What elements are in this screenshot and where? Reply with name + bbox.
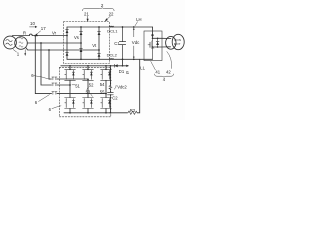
svg-text:DCL1: DCL1 <box>107 28 118 33</box>
svg-text:D1: D1 <box>119 69 125 74</box>
wire S drop vertical <box>41 43 52 85</box>
clamp bottom bus wire <box>64 112 128 114</box>
node Vdc bottom tap <box>133 58 135 60</box>
node emitter-output <box>152 46 154 48</box>
load winding ellipse <box>166 36 176 49</box>
wire rail to bus link <box>122 59 124 66</box>
wire bottom DC rail <box>67 58 153 60</box>
label 52 with leader <box>87 82 94 89</box>
limiter zigzag <box>109 85 112 89</box>
wire collector drop into box <box>152 27 154 38</box>
wire hop on R line <box>29 34 32 35</box>
node bus D1 link <box>122 65 124 67</box>
diode upper leg3 <box>98 32 101 35</box>
node S drop <box>40 42 42 44</box>
wire R drop vertical <box>35 36 51 94</box>
inductor DCL1 coil <box>109 25 114 28</box>
node collector <box>152 38 154 40</box>
current arrow I1 <box>126 65 130 76</box>
wire T drop vertical <box>49 50 52 79</box>
label 17 with arrow to wire <box>34 26 46 36</box>
svg-text:41: 41 <box>155 69 160 74</box>
diode lower leg2 <box>80 49 83 52</box>
label 53 with leader <box>86 89 93 96</box>
clamp branch wire upper <box>109 66 111 86</box>
label 6 lower with leader <box>49 106 61 112</box>
wire column1 mid <box>69 80 71 97</box>
node C1 top <box>122 26 124 28</box>
diode lower leg3 <box>98 53 101 56</box>
cell 52 top-middle <box>83 66 94 81</box>
cell 54 top-right <box>101 66 112 81</box>
svg-text:54: 54 <box>100 82 105 87</box>
node bottom clamp branch <box>110 112 112 114</box>
svg-text:Vs: Vs <box>74 35 79 40</box>
bridge leg 1 vertical <box>66 27 68 59</box>
rectifier module box 2 dashed <box>64 22 110 64</box>
node bus col2 <box>87 65 89 67</box>
svg-text:Vr: Vr <box>52 30 57 35</box>
svg-text:DCL2: DCL2 <box>107 52 118 57</box>
svg-text:I1: I1 <box>126 70 130 75</box>
wire column3 mid <box>105 80 107 97</box>
svg-text:Vdc: Vdc <box>132 40 140 45</box>
svg-text:10: 10 <box>30 21 35 26</box>
svg-text:6: 6 <box>35 100 38 105</box>
node S tap col1 <box>69 84 71 86</box>
node T-leg3 <box>98 49 100 51</box>
node R-leg1 <box>66 35 68 37</box>
transistor 41 IGBT <box>148 34 154 59</box>
svg-text:LL: LL <box>140 66 145 71</box>
svg-text:22: 22 <box>109 11 114 16</box>
svg-text:52: 52 <box>89 82 94 87</box>
filter element 6 on R wire <box>52 92 57 95</box>
node diode top <box>157 38 159 40</box>
label 41 with leader <box>151 61 161 74</box>
svg-text:42: 42 <box>166 69 171 74</box>
wire phase R horizontal <box>12 35 67 37</box>
diode upper leg2 <box>80 32 83 35</box>
label 51 with leader <box>72 84 81 89</box>
svg-text:R2: R2 <box>130 108 136 113</box>
switching unit box 4 <box>144 31 162 61</box>
diode 42 freewheel <box>156 38 159 47</box>
bridge leg 2 vertical <box>80 27 82 59</box>
node R tap col3 <box>105 93 107 95</box>
wire top DC rail <box>67 26 153 28</box>
wire output upper to load <box>153 37 171 39</box>
brace over 21 and 22 <box>82 7 114 10</box>
wire column2 mid <box>87 80 89 97</box>
label 22 with arrow <box>105 11 114 21</box>
svg-text:55: 55 <box>100 89 105 94</box>
bridge leg 3 vertical <box>98 27 100 59</box>
svg-text:21: 21 <box>84 11 89 16</box>
node bus col3 <box>105 65 107 67</box>
neutral stub arrow below source <box>24 50 26 56</box>
svg-text:LH: LH <box>136 17 141 22</box>
label Vdc2 with arc <box>114 84 127 89</box>
label 6 middle with leader <box>35 95 50 105</box>
node T drop <box>48 49 50 51</box>
node bus col1 <box>69 65 71 67</box>
filter element 6 on T wire <box>52 77 57 80</box>
svg-text:Vt: Vt <box>92 43 97 48</box>
capacitor C2 <box>108 89 114 113</box>
wire output lower to load <box>153 46 171 48</box>
inverter module box 5 dashed <box>59 67 111 117</box>
label LH with leader <box>135 17 142 26</box>
wire T into box <box>57 78 88 80</box>
wire LL vertical <box>137 59 140 113</box>
node leg2 top <box>80 26 82 28</box>
cell bottom-left switch <box>65 98 76 113</box>
label 6 upper with leader <box>31 73 50 79</box>
svg-text:1: 1 <box>17 52 20 57</box>
diode lower leg1 <box>66 52 69 55</box>
node S-leg2 <box>80 42 82 44</box>
label 1 with pointer <box>13 50 20 57</box>
svg-text:R: R <box>23 31 26 36</box>
node leg2 bottom <box>80 58 82 60</box>
svg-text:MOT: MOT <box>174 42 181 46</box>
capacitor C1 <box>119 27 125 59</box>
diode upper leg1 <box>66 30 69 33</box>
svg-text:C2: C2 <box>112 95 118 100</box>
resistor R2 <box>128 111 137 114</box>
wire phase T horizontal <box>26 48 99 50</box>
label 10 with current arrow <box>30 21 38 28</box>
cell 53 bottom-middle <box>83 98 94 113</box>
label 21 with arrow <box>84 11 89 21</box>
node leg3 bottom <box>98 58 100 60</box>
svg-text:51: 51 <box>75 84 80 89</box>
node bottom col3 <box>105 112 107 114</box>
diode D1 on bus <box>114 64 117 67</box>
svg-text:6: 6 <box>49 107 52 112</box>
filter element 6 on S wire <box>52 83 57 86</box>
node C1 bottom <box>122 58 124 60</box>
svg-text:4: 4 <box>163 77 166 82</box>
cell 51 top-left <box>65 66 76 81</box>
node Vdc top tap <box>133 26 135 28</box>
node diode bottom <box>157 46 159 48</box>
wire phase S horizontal <box>27 42 81 44</box>
voltage arrow Vdc <box>133 28 135 59</box>
inductor DCL2 coil <box>109 57 114 60</box>
node R drop <box>34 35 36 37</box>
node bottom col2 <box>87 112 89 114</box>
brace under 41 42 <box>154 74 173 77</box>
wire R into box <box>57 93 106 95</box>
svg-text:C1: C1 <box>114 41 120 46</box>
wire S into box <box>57 84 70 86</box>
svg-text:Vdc2: Vdc2 <box>117 84 127 89</box>
label 42 with leader <box>166 52 172 75</box>
node bus clamp branch <box>110 65 112 67</box>
AC source circle with two sine waves <box>4 36 17 49</box>
svg-text:17: 17 <box>41 26 46 31</box>
node bottom col1 <box>69 112 71 114</box>
node leg3 top <box>98 26 100 28</box>
cell 55 bottom-right <box>101 98 112 113</box>
node T tap col2 <box>87 78 89 80</box>
svg-text:53: 53 <box>86 89 91 94</box>
three-phase winding circle <box>15 37 28 50</box>
load motor circle with text <box>172 34 184 49</box>
clamp bus wire <box>61 65 128 67</box>
